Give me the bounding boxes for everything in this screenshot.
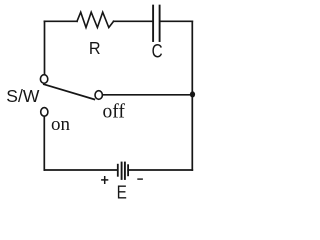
battery minus sign xyxy=(137,178,143,180)
svg-text:S/W: S/W xyxy=(6,86,40,106)
battery E plate 1 (long, +) xyxy=(117,164,119,177)
battery E plate 3 (tall) xyxy=(124,162,126,180)
svg-text:off: off xyxy=(103,102,126,123)
battery E plate 4 (short, -) xyxy=(127,164,129,176)
wire top middle (resistor to capacitor) xyxy=(114,20,153,22)
wire left vertical (top corner down to switch common) xyxy=(44,21,46,78)
switch off terminal circle xyxy=(95,91,102,100)
capacitor C left plate xyxy=(152,6,154,41)
wire from on terminal down to bottom wire xyxy=(43,114,45,170)
battery E plate 2 (tall) xyxy=(121,162,123,180)
resistor R zigzag xyxy=(77,12,114,27)
svg-text:E: E xyxy=(117,182,127,203)
wire right vertical xyxy=(191,21,193,170)
wire bottom-right horizontal segment xyxy=(128,169,192,171)
switch on terminal circle xyxy=(41,108,48,117)
wire top-right horizontal segment xyxy=(161,20,193,22)
svg-text:C: C xyxy=(152,40,163,62)
battery plus sign xyxy=(101,176,108,184)
switch common terminal circle xyxy=(40,75,47,84)
wire top-left horizontal segment xyxy=(45,20,78,22)
wire bottom-left horizontal segment xyxy=(45,169,118,171)
capacitor C right plate xyxy=(159,6,161,41)
svg-text:R: R xyxy=(89,38,101,58)
svg-text:on: on xyxy=(51,114,71,135)
junction node dot xyxy=(190,91,195,97)
switch S/W blade xyxy=(44,84,94,99)
wire from off terminal to right junction xyxy=(99,94,193,96)
